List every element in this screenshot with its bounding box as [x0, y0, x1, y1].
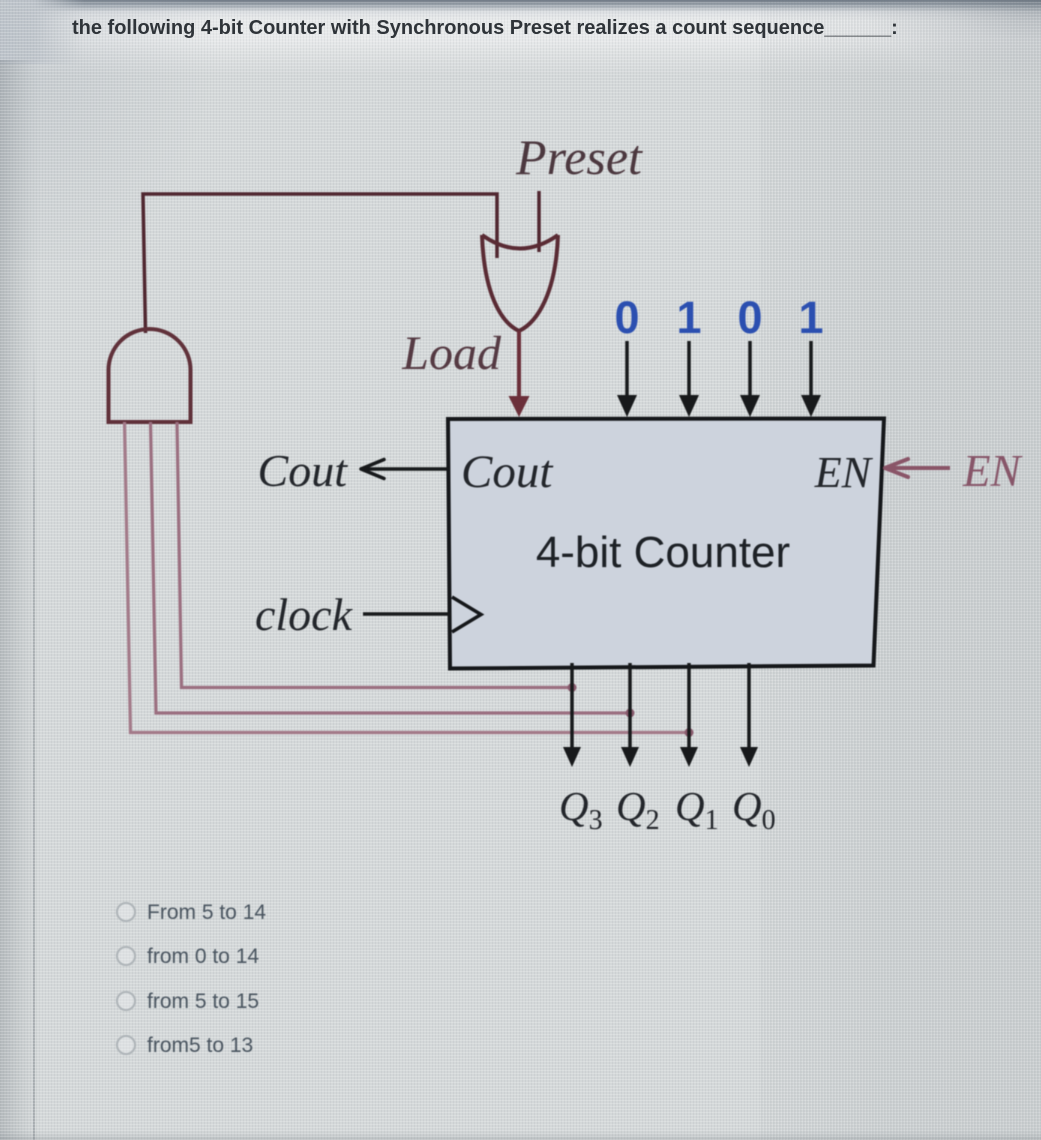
wire: Q1 feedback to AND input (left): [125, 422, 690, 733]
svg-text:Preset: Preset: [515, 129, 643, 185]
wire: Cout output arrow (points left): [364, 467, 449, 471]
svg-text:EN: EN: [962, 446, 1023, 496]
svg-text:1: 1: [676, 292, 701, 343]
svg-text:Q0: Q0: [732, 783, 776, 836]
junction dot on Q2 line: [626, 709, 635, 718]
junction dot on Q1 line: [685, 728, 694, 737]
wire: OR output (Load) arrow into counter: [517, 331, 521, 399]
wire: AND gate output up and across to OR gate left input: [143, 194, 497, 333]
wire: D1 input arrow: [748, 341, 752, 399]
svg-text:Q2: Q2: [616, 783, 660, 836]
wire: Preset to OR gate right input: [537, 191, 541, 252]
svg-text:Cout: Cout: [461, 446, 553, 498]
wire: Q0 output arrow: [747, 663, 751, 750]
AND gate: [109, 329, 191, 422]
wire: D2 input arrow: [687, 341, 691, 399]
svg-text:Q1: Q1: [675, 783, 719, 836]
svg-text:0: 0: [737, 292, 762, 343]
svg-text:clock: clock: [255, 589, 354, 640]
svg-text:Cout: Cout: [258, 445, 349, 496]
wire: clock input: [363, 612, 451, 616]
svg-text:1: 1: [798, 292, 823, 343]
wire: Q3 output arrow: [570, 663, 574, 750]
svg-text:Q3: Q3: [559, 783, 603, 836]
U1 clock chevron: [452, 597, 481, 632]
wire: Q3 feedback to AND input (right): [177, 422, 572, 688]
wire: D0 input arrow: [809, 341, 813, 399]
wire: EN input arrow (points left into box): [890, 466, 950, 470]
svg-text:EN: EN: [814, 448, 874, 497]
4-bit counter U1 body: [448, 419, 884, 669]
svg-text:Load: Load: [401, 327, 502, 380]
wire: Q2 feedback to AND input (middle): [151, 422, 631, 713]
wire: Q1 output arrow: [687, 663, 691, 750]
wire: Q2 output arrow: [628, 663, 632, 750]
svg-text:0: 0: [614, 292, 639, 343]
OR gate: [482, 235, 558, 331]
junction dot on Q3 line: [568, 683, 577, 692]
svg-text:4-bit Counter: 4-bit Counter: [536, 528, 790, 577]
wire: D3 input arrow: [625, 341, 629, 399]
